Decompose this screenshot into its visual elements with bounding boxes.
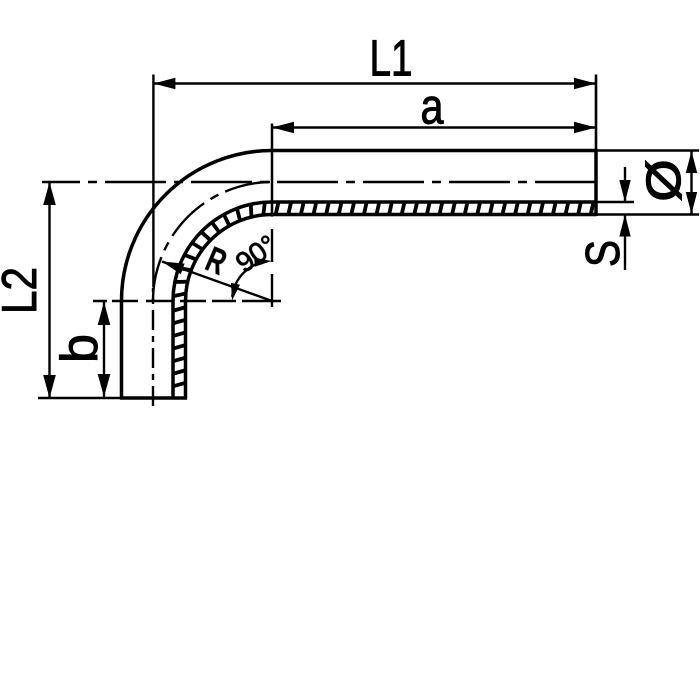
tube bottom end edge — [120, 396, 187, 400]
a left extension line (solid part through tube) — [271, 124, 274, 217]
dashed line through bend centre (horizontal) — [93, 300, 281, 302]
sectioned wall outer edge line — [186, 215, 597, 399]
dimension L2 top arrow — [43, 182, 56, 205]
diameter dimension line — [690, 151, 692, 215]
S dimension upper leader — [624, 167, 626, 202]
outer contour of bent tube — [122, 151, 597, 399]
90 degree angle arc — [232, 261, 267, 297]
svg-text:a: a — [421, 79, 444, 135]
dashed extension line from tangent point to bend centre (vertical) — [271, 229, 273, 307]
bottom extension line for L2 and b — [38, 397, 122, 399]
dimension a line — [272, 126, 596, 128]
dimension a right arrow — [574, 122, 596, 133]
centreline arc through bend (dash-dot) — [153, 182, 270, 301]
dimension L1 right arrow — [574, 78, 596, 89]
90 degree arc top arrow — [254, 258, 271, 267]
bend radius R leader line — [162, 262, 272, 302]
dimension b line — [103, 301, 105, 398]
tube right end edge — [594, 149, 598, 216]
R leader arrow — [162, 262, 185, 275]
svg-text:S: S — [577, 240, 630, 267]
dimension L2 bottom arrow — [43, 375, 56, 398]
vertical centreline (dash-dot) — [152, 288, 154, 406]
S wall-thickness extension line — [596, 201, 634, 203]
svg-text:Ø: Ø — [638, 160, 691, 202]
svg-text:L2: L2 — [0, 267, 47, 314]
diameter top arrow — [686, 151, 697, 173]
svg-text:L1: L1 — [370, 30, 413, 87]
horizontal centreline (dash-dot) — [42, 181, 596, 183]
diameter bottom arrow — [686, 192, 697, 214]
section hatching of tube wall — [172, 201, 594, 386]
L1/a right extension line above tube — [595, 75, 598, 151]
svg-text:b: b — [51, 334, 109, 363]
S dimension lower leader — [624, 215, 626, 271]
dimension b bottom arrow — [98, 374, 111, 397]
diameter extension line top — [596, 149, 699, 151]
dimension a left arrow — [272, 122, 294, 133]
dimension b top arrow — [98, 302, 111, 325]
dimension L1 line — [153, 82, 596, 84]
L1 left extension line (over leg centreline) — [152, 75, 154, 288]
dimension L1 left arrow — [153, 78, 175, 89]
dimension L2 line — [48, 182, 50, 398]
diameter extension line bottom — [596, 213, 699, 215]
bore (inner) surface line of tube wall — [173, 202, 596, 398]
90 degree arc bottom arrow — [231, 283, 240, 301]
